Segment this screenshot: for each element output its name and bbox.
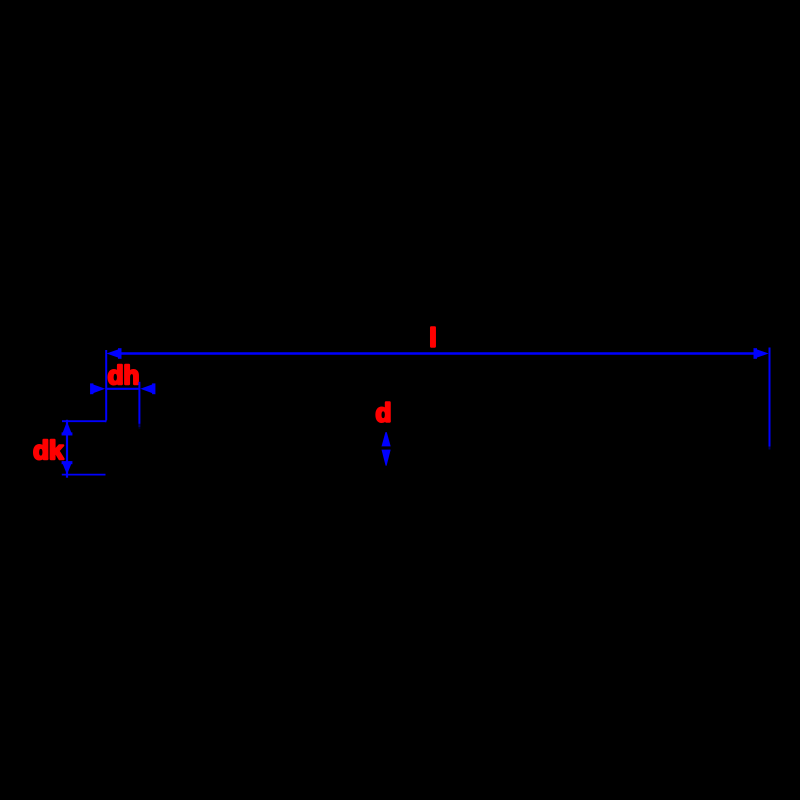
- arrowhead right outside of dimension dh: [140, 383, 155, 394]
- rivet shank top outline (black, overlays blue): [150, 429, 760, 432]
- rivet shank bottom outline (black, overlays blue): [150, 466, 760, 469]
- dimension line l: [121, 352, 755, 354]
- extension line dh right (cone end): [138, 382, 140, 424]
- rivet centerline (black, overlays blue): [200, 447, 764, 450]
- arrowhead up of dk base bar: [62, 432, 73, 435]
- arrowhead down of dk base bar: [62, 461, 73, 464]
- arrowhead down of dimension dk: [62, 461, 73, 474]
- extension line right fading tail: [769, 447, 771, 450]
- extension line left (head top corner): [105, 350, 107, 422]
- svg-text:dk: dk: [33, 435, 64, 465]
- arrowhead left of dimension l: [106, 348, 121, 359]
- extension line dk bottom: [62, 474, 106, 476]
- extension line dk top: [62, 420, 107, 422]
- arrowhead left outside of dh base bar: [90, 383, 93, 394]
- svg-text:l: l: [429, 323, 436, 353]
- dimension line dh: [106, 388, 139, 390]
- rivet head cone top outline (black, overlays blue): [107, 421, 142, 430]
- arrowhead right outside of dh base bar: [152, 383, 155, 394]
- svg-text:d: d: [376, 398, 392, 428]
- arrowhead left outside of dimension dh: [90, 383, 105, 394]
- dimension line dk: [66, 420, 68, 478]
- arrowhead left of dimension l base bar: [118, 348, 122, 359]
- extension line right (rivet end): [769, 348, 771, 447]
- svg-text:dh: dh: [108, 360, 140, 390]
- arrowhead down of dimension d: [382, 450, 391, 468]
- arrowhead right of dimension l base bar: [754, 348, 758, 359]
- arrowhead right of dimension l: [754, 348, 769, 359]
- arrowhead up of dimension d: [382, 430, 391, 447]
- extension line dh right fading tail end: [138, 427, 140, 431]
- extension line dh right fading tail: [138, 424, 140, 427]
- arrowhead up of dimension dk: [62, 422, 73, 436]
